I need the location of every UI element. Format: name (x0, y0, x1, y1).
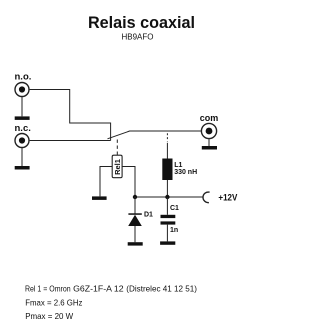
svg-text:C1: C1 (170, 205, 179, 212)
mechanical link switch to Rel1 (dashed) (116, 140, 118, 156)
wire to L1 top (166, 143, 168, 159)
svg-text:n.o.: n.o. (15, 72, 32, 83)
wire +12V rail (135, 196, 203, 198)
svg-text:330 nH: 330 nH (174, 169, 197, 176)
ground (n.o. shield) (15, 116, 30, 120)
wire n.c. pin to switch contact (30, 140, 111, 142)
wire Rel1 left pin to ground (100, 167, 112, 197)
junction node (Rel1/D1/rail) (133, 195, 137, 199)
switch arm (relay contact) (108, 131, 131, 139)
svg-text:Rel1: Rel1 (113, 159, 122, 175)
wire Rel1 right pin to rail (122, 167, 135, 198)
ground (C1) (160, 241, 175, 244)
svg-text:Relais coaxial: Relais coaxial (88, 14, 195, 32)
connector J1 n.o. (15, 83, 29, 97)
ground (D1) (128, 242, 143, 245)
inductor L1 (162, 159, 172, 181)
wire switch arm to com (130, 130, 202, 132)
ground (n.c. shield) (15, 166, 30, 170)
svg-text:1n: 1n (170, 227, 178, 234)
wire n.o. pin to switch contact (30, 90, 111, 141)
ground (Rel1 coil) (92, 196, 107, 200)
svg-text:G6Z-1F-A 12: G6Z-1F-A 12 (73, 283, 124, 293)
connector J2 n.c. (15, 134, 29, 148)
svg-text:com: com (200, 113, 219, 123)
relay coil Rel1 (112, 155, 122, 178)
terminal +12V (203, 192, 210, 203)
wire rail to C1 (166, 197, 168, 215)
svg-text:Pmax = 20 W: Pmax = 20 W (25, 311, 74, 321)
ground (com shield) (202, 146, 217, 150)
wire L1 bottom to rail (166, 180, 168, 197)
wire com shield to ground (208, 139, 210, 146)
capacitor C1 (161, 215, 176, 225)
junction node (L1/C1/rail) (165, 195, 169, 199)
svg-text:HB9AFO: HB9AFO (122, 32, 154, 41)
wire com to L1 (dashed upper part) (166, 133, 168, 141)
svg-text:(Distrelec 41 12 51): (Distrelec 41 12 51) (126, 283, 197, 293)
svg-text:D1: D1 (144, 212, 153, 219)
svg-text:Fmax = 2.6 GHz: Fmax = 2.6 GHz (25, 297, 82, 307)
diode D1 (128, 213, 142, 226)
wire D1 anode to ground (134, 226, 136, 242)
wire n.c. shield to ground (21, 148, 23, 166)
wire rail to D1 cathode (134, 197, 136, 214)
connector J3 com (201, 123, 216, 138)
wire C1 to ground (166, 225, 168, 242)
svg-text:+12V: +12V (218, 192, 237, 202)
svg-text:Rel 1 = Omron: Rel 1 = Omron (25, 283, 71, 293)
svg-text:n.c.: n.c. (15, 123, 31, 134)
wire n.o. shield to ground (21, 97, 23, 116)
